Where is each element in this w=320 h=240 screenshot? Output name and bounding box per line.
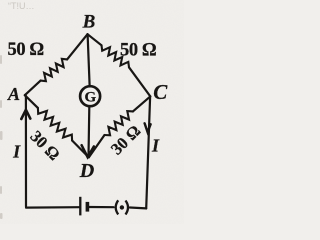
faint scan ghost text top edge	[8, 1, 35, 11]
current arrow I on right wire (down)	[145, 123, 151, 132]
value label 30 Ω (right, rotated)	[107, 121, 144, 158]
current arrow on galvanometer branch near D (down)	[82, 145, 94, 157]
wire bottom left (corner to battery)	[26, 206, 79, 209]
wire B-C lower segment	[129, 67, 150, 96]
resistor R1 50Ω (arm A-B)	[41, 59, 68, 81]
key K: right contact arc	[126, 201, 129, 215]
svg-text:A: A	[7, 84, 20, 104]
current arrow I on left wire (up)	[21, 110, 30, 119]
svg-text:I: I	[151, 135, 160, 155]
wire A-D upper segment	[25, 95, 38, 108]
wire B to galvanometer	[88, 34, 90, 85]
svg-text:50 Ω: 50 Ω	[120, 41, 156, 61]
wire left vertical (A down to corner)	[25, 96, 27, 207]
svg-text:C: C	[153, 80, 168, 104]
galvanometer label G	[84, 90, 96, 106]
value label 50 Ω (right)	[120, 41, 156, 61]
resistor R3 30Ω (arm A-D)	[38, 108, 72, 141]
resistor R4 30Ω (arm D-C)	[105, 111, 133, 135]
current label I (right)	[151, 135, 160, 155]
wire battery to key	[89, 206, 114, 208]
svg-text:I: I	[12, 141, 21, 161]
faint scan smudges left edge	[0, 55, 3, 219]
svg-text:G: G	[84, 90, 96, 106]
current label I (left)	[12, 141, 21, 161]
wire key to bottom right corner	[130, 206, 146, 209]
galvanometer U1 circle	[80, 86, 100, 106]
svg-text:50 Ω: 50 Ω	[8, 40, 44, 60]
wire D-C lower segment	[89, 135, 105, 157]
wire A-B lower segment	[25, 81, 41, 96]
resistor R2 50Ω (arm B-C)	[102, 45, 130, 67]
wire galvanometer to D	[87, 107, 90, 156]
node label D	[79, 160, 94, 182]
background paper	[0, 0, 184, 224]
key K: center dot	[120, 205, 124, 209]
wire D-C upper segment	[133, 96, 150, 111]
value label 50 Ω (left)	[8, 40, 44, 60]
svg-text:D: D	[79, 160, 94, 182]
wire B-C upper segment	[88, 34, 102, 45]
node label B	[82, 12, 96, 33]
wire A-B upper segment	[67, 34, 87, 59]
svg-text:B: B	[82, 12, 96, 33]
battery cell: long plate	[79, 197, 81, 216]
value label 30 Ω (left, rotated)	[27, 127, 64, 164]
node label A	[7, 84, 20, 104]
svg-text:“T!U…: “T!U…	[8, 1, 35, 11]
battery cell: short thick plate	[86, 202, 90, 212]
node label C	[153, 80, 168, 104]
key K: left contact arc	[116, 200, 119, 214]
wire A-D lower segment	[72, 141, 89, 158]
wire right vertical (C down to corner)	[146, 97, 150, 208]
